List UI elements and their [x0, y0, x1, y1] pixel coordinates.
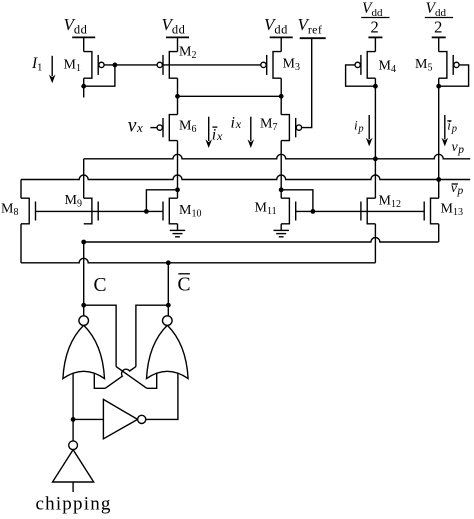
- node Cbar on bottom rail: [166, 260, 171, 265]
- ground M10: [170, 224, 185, 237]
- wire diagonal from C: [116, 367, 147, 389]
- wire left gate left input down: [72, 373, 74, 419]
- svg-text:2: 2: [370, 18, 378, 37]
- wire right gate right input to inverter out: [146, 373, 178, 419]
- node M1 drain: [81, 84, 86, 89]
- wire into right gate left input: [147, 373, 157, 389]
- label ix-bar: [212, 126, 223, 143]
- label vp-bar: [451, 181, 464, 197]
- transistor M3: [261, 37, 281, 96]
- wire into left gate right input: [94, 373, 105, 389]
- inverter U4 (chipping input): [53, 419, 94, 492]
- M5 diode wire gate to drain: [439, 65, 469, 86]
- inverter U3: [73, 399, 146, 438]
- node vp M4 drain: [373, 156, 378, 161]
- wire M12 drain from rail vp: [374, 159, 376, 198]
- wire M7 gate to Vref: [302, 38, 312, 127]
- current arrow I1: [51, 56, 53, 76]
- wire Cbar to left gate input: [136, 305, 168, 366]
- wire bottom rail M8 to M12: [21, 258, 375, 263]
- Vref supply bar: [300, 37, 326, 39]
- ground M11: [274, 224, 289, 237]
- node M7 lower drain: [279, 187, 284, 192]
- node M3 drain: [279, 94, 284, 99]
- svg-text:C: C: [94, 275, 107, 296]
- node vp-bar M5 drain: [436, 177, 441, 182]
- svg-text:ix: ix: [212, 126, 223, 143]
- node M5 drain: [436, 84, 441, 89]
- wire M9 source to M13 source: [84, 238, 439, 243]
- label Cbar: [178, 274, 191, 296]
- wire M8 source down: [20, 224, 22, 263]
- wire gate line M8 M9 M10: [36, 210, 164, 212]
- node gate line left: [144, 209, 149, 214]
- Vdd/2 label M4: [361, 0, 389, 36]
- Vdd supply bar for M1: [72, 36, 95, 38]
- transistor M7: [281, 96, 301, 190]
- NOR gate U2 (Cbar): [147, 316, 189, 379]
- transistor M4: [355, 37, 375, 158]
- node M2 drain: [175, 94, 180, 99]
- wire M6 drain to gate line: [146, 190, 177, 212]
- svg-text:2: 2: [434, 18, 442, 37]
- wire M13 drain from rail vp-bar: [438, 180, 440, 199]
- Vdd/2 supply bar for M4: [368, 36, 382, 38]
- svg-text:ix: ix: [231, 115, 242, 132]
- node gate line right: [311, 209, 316, 214]
- node M6 lower drain: [175, 187, 180, 192]
- node M9 source: [81, 240, 86, 245]
- transistor M9: [84, 198, 92, 224]
- wire C to right gate input: [84, 305, 116, 366]
- wire M9 drain from rail vp: [83, 159, 85, 198]
- NOR gate U1 (C): [63, 316, 105, 379]
- node Cbar branch: [166, 303, 171, 308]
- wire M2 drain to M3 drain: [178, 95, 282, 97]
- node M1 gate: [113, 63, 118, 68]
- label ip-bar: [447, 118, 457, 135]
- Vdd supply bar for M3: [270, 36, 293, 38]
- current arrow ix-bar: [208, 117, 210, 141]
- current arrow ip-bar: [444, 115, 446, 139]
- wire diagonal from Cbar with hop: [105, 367, 136, 389]
- wire rail vp: [84, 154, 471, 159]
- transistor M10: [163, 190, 178, 224]
- transistor M13: [431, 198, 439, 224]
- current arrow ip: [368, 115, 370, 139]
- current arrow ix: [250, 117, 252, 141]
- Vdd/2 label M5: [425, 0, 453, 36]
- wire node C: [83, 242, 85, 316]
- wire M7 drain to gate line: [281, 190, 313, 212]
- wire node Cbar: [167, 263, 169, 316]
- transistor M5: [439, 37, 459, 179]
- M1 diode wire gate to drain: [84, 65, 115, 86]
- wire M12 source down: [374, 224, 376, 263]
- node M4 drain: [373, 84, 378, 89]
- node C branch: [81, 303, 86, 308]
- wire vx input: [150, 127, 157, 129]
- transistor M2: [157, 37, 177, 96]
- Vdd/2 supply bar for M5: [432, 36, 446, 38]
- wire M8 drain from rail vp-bar: [20, 180, 22, 199]
- transistor M12: [367, 198, 375, 224]
- svg-text:chipping: chipping: [36, 494, 112, 515]
- M4 diode wire gate to drain: [346, 65, 376, 86]
- wire gate line M11 M12 M13: [296, 210, 425, 212]
- wire M13 source down: [438, 224, 440, 242]
- wire gate line to M2 M3: [115, 64, 261, 66]
- svg-text:C: C: [178, 275, 191, 296]
- wire rail vp-bar: [21, 175, 470, 180]
- transistor M8: [21, 198, 29, 224]
- transistor M1: [84, 37, 104, 97]
- transistor M11: [281, 190, 296, 224]
- node inverter input: [71, 417, 76, 422]
- transistor M6: [157, 96, 177, 190]
- Vdd supply bar for M2: [166, 36, 189, 38]
